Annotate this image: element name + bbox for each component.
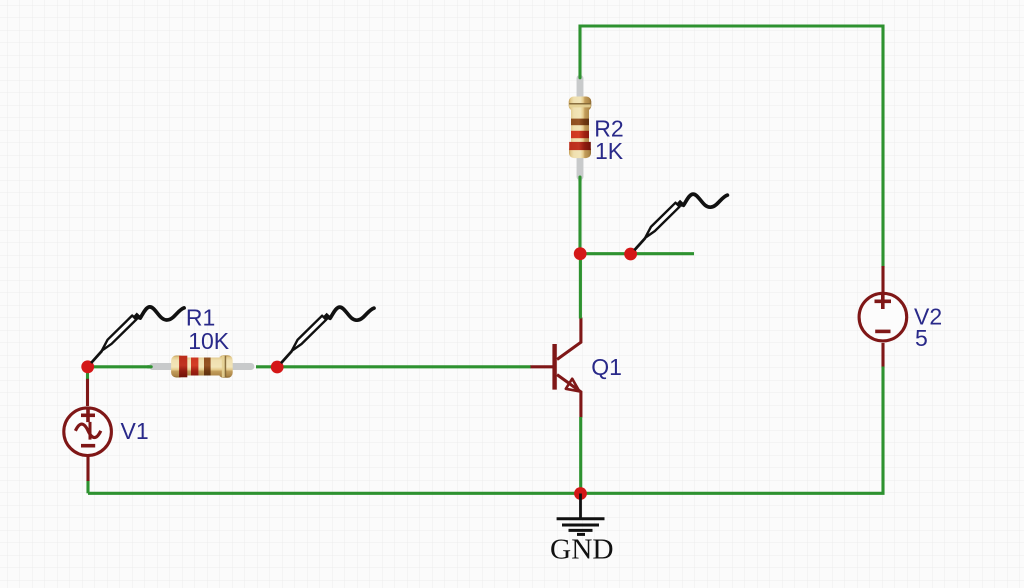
voltage source V2	[859, 293, 907, 341]
wire: node row horizontal green	[580, 252, 694, 255]
resistor R1 10K	[153, 355, 251, 378]
wire: collector vertical green (node C to Q1)	[579, 254, 582, 319]
node C (junction at R2 bottom)	[574, 247, 587, 260]
wire: V1 bottom lead (dark red)	[86, 456, 89, 481]
svg-text:1K: 1K	[595, 138, 624, 164]
wire: base row right green (R1 to Q1 base)	[256, 365, 531, 368]
wire: V2 top lead (dark red)	[881, 266, 884, 292]
wire: base row left green (node A to R1)	[87, 365, 150, 368]
probe P3 (on node D)	[634, 194, 727, 250]
svg-text:GND: GND	[550, 535, 614, 566]
wire: green tip over R1 left lead	[148, 365, 151, 368]
node A (junction dot at V1 top)	[81, 360, 94, 373]
wire: V2 bottom lead (dark red)	[881, 343, 884, 368]
node B (junction dot right of R1)	[271, 361, 284, 374]
probe P2 (on node B)	[281, 307, 374, 363]
wire: right rail lower + bottom horizontal (green)	[88, 367, 883, 494]
svg-text:10K: 10K	[188, 328, 230, 354]
wire: green tip over R2 bottom lead	[578, 177, 581, 181]
voltage source V1 (sine)	[64, 408, 112, 456]
svg-text:R1: R1	[186, 305, 215, 331]
wire: V1 top lead (dark red)	[86, 379, 89, 406]
node D (junction on node row)	[624, 248, 637, 261]
resistor R2 1K	[569, 78, 592, 176]
svg-text:5: 5	[915, 325, 928, 351]
wire: Q1 base lead (dark red)	[531, 365, 554, 368]
wire: green tip over R2 top lead	[578, 76, 581, 78]
wire: V1 top green stub	[86, 367, 89, 380]
ground GND	[557, 494, 605, 535]
wire: emitter vertical green (Q1 to ground rail)	[579, 417, 582, 493]
wire: R2 bottom green (R2 to node C)	[578, 177, 581, 254]
transistor Q1	[555, 318, 581, 418]
probe P1 (on node A)	[91, 307, 184, 363]
svg-text:V1: V1	[121, 418, 149, 444]
wire: V1 bottom green corner	[86, 480, 89, 493]
wire: top horizontal (R2 top to right rail)	[580, 26, 883, 267]
svg-text:Q1: Q1	[591, 354, 622, 380]
node E (junction at ground)	[574, 487, 587, 500]
